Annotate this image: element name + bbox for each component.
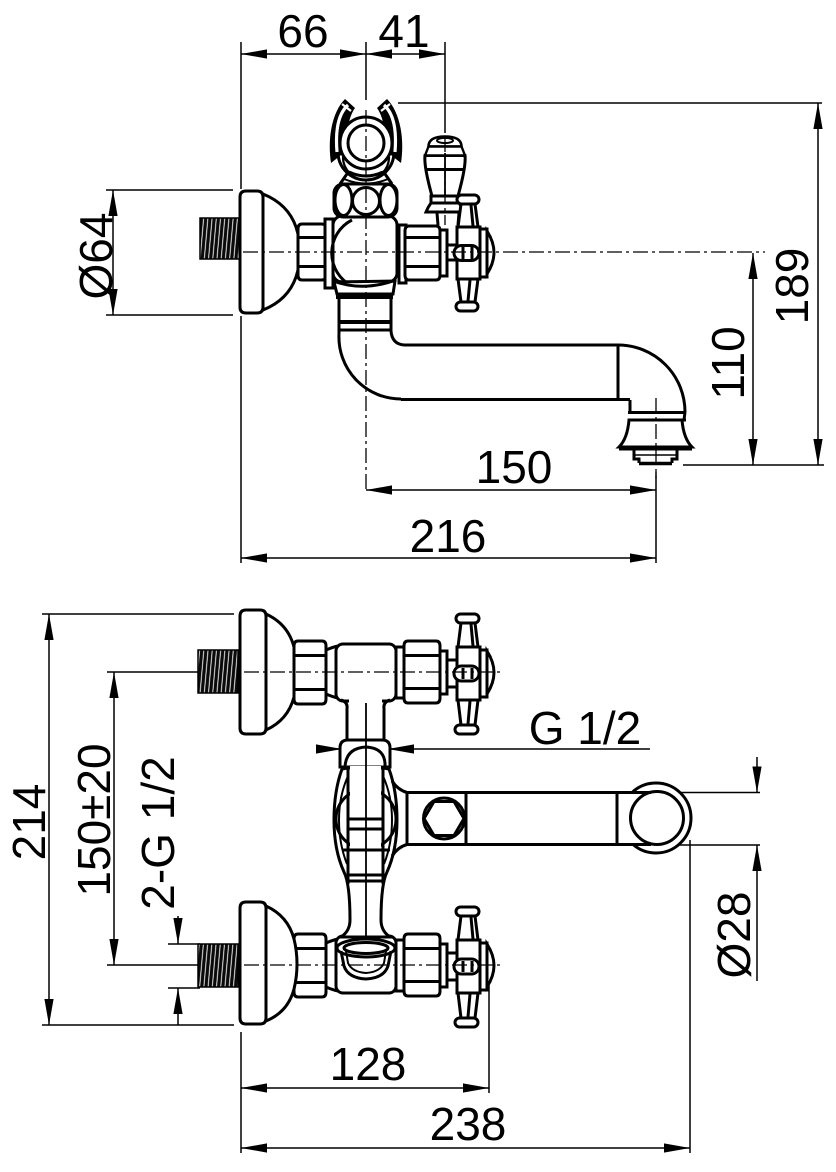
body centerline seam (front view) [365,703,367,940]
valve cup in lower tee (front view) [337,939,395,979]
wall plane extension line (bottom view) [240,1032,242,1153]
lower union hex nut (front view) [294,934,338,997]
dimension 216 line [241,557,656,559]
shower-hose collar with balls (top view) [334,184,397,217]
leader 2-G 1/2 ticks [168,943,200,945]
upper tee down-leg (front view) [341,697,390,743]
dimension line 66 [241,53,366,55]
spout aerator (top view) [634,450,677,464]
centerline lower axis (front view) [244,964,500,966]
dimension 189 extension line top (fork top) [398,102,822,104]
dimension O28 extension lines [670,792,760,794]
upper cross handle (front view) [454,614,494,734]
spout end outer circle (front view) [621,783,691,853]
upper union hex nut (front view) [294,641,338,704]
leader 2-G 1/2 arrows [177,916,179,944]
dimension 66 extension line right (body axis) [365,42,367,100]
dimension 128 extension line right (handle) [488,975,490,1093]
wall thread nipple (top view) [200,218,240,259]
upper wall thread (front view) [198,650,238,693]
lower wall thread (front view) [198,944,238,987]
svg-text:238: 238 [430,1098,507,1150]
diverter valve bonnet hex (top view) [399,225,447,283]
dimension 150+-20 line [113,672,115,965]
dimension 189 line [817,103,819,465]
union hex nut (top view) [298,219,333,288]
svg-text:150±20: 150±20 [68,743,120,896]
svg-text:41: 41 [378,5,429,57]
dimension 214 line [48,614,50,1025]
dimension 214 extension lines [42,613,234,615]
dimension 128 line [241,1087,489,1089]
centerline upper axis (front view) [244,671,500,673]
svg-text:2-G 1/2: 2-G 1/2 [132,756,184,909]
spout end inner circle (front view) [631,792,684,845]
supply collar (front view) [340,740,390,767]
mixing chamber (front view) [334,766,397,937]
centerline horizontal axis (top view) [243,251,765,253]
dimension G 1/2 line [318,748,650,750]
spout horizontal pipe (top view) [401,345,630,400]
lower wall flange (front view) [240,902,297,1024]
lower tee body (front view) [336,936,396,993]
svg-text:110: 110 [702,326,754,399]
dimension 66 extension line left (wall plane) [240,42,242,189]
spout arm (front view) [392,781,652,856]
dimension 238 line [241,1147,690,1149]
centerline spout outlet (top view) [655,398,657,478]
lower cross handle (front view) [454,907,494,1027]
svg-text:216: 216 [410,510,487,562]
dimension 238 extension line right (spout end) [689,840,691,1153]
dimension O64 extension lines [106,189,233,191]
diverter knob (top view) [425,137,465,226]
dimension 150 line [366,489,656,491]
svg-text:128: 128 [330,1038,407,1090]
upper wall flange (front view) [240,610,297,734]
wall plane extension line lower (top view) [240,316,242,563]
spout outlet centerline extension [655,472,657,563]
centerline body vertical (top view) [365,110,367,493]
svg-text:Ø28: Ø28 [708,892,760,979]
fork neck (top view) [340,171,392,184]
svg-text:Ø64: Ø64 [70,213,122,300]
upper valve bonnet hex (front view) [396,641,457,703]
dimension 110 line [752,253,754,465]
lower valve bonnet hex (front view) [396,934,457,996]
svg-text:189: 189 [766,248,818,325]
dimension O28 line and arrows [756,757,758,793]
dimension 110/189 extension line bottom (spout outlet) [683,464,824,466]
dimension 41 extension line right (knob axis) [444,42,446,133]
spout elbow (top view) [618,345,685,412]
spout outlet bell (top view) [619,400,692,448]
centerline knob vertical (top view) [444,137,446,225]
svg-text:66: 66 [277,5,328,57]
dimension line O64 [112,190,114,315]
svg-text:214: 214 [3,784,55,861]
spout attachment nut (front view) [424,798,465,839]
spout S-bend (top view) [339,331,404,399]
spout down pipe (top view) [338,298,392,334]
svg-text:150: 150 [476,441,553,493]
upper tee body (front view) [336,644,396,701]
wall flange (top view) [240,191,300,313]
valve body (top view) [332,216,397,297]
dimension line 41 [366,53,445,55]
shower holder fork (top view) [330,99,402,180]
dimension 150+-20 extension lines [107,671,200,673]
svg-text:G 1/2: G 1/2 [529,702,642,754]
cross handle (top view) [447,195,494,311]
